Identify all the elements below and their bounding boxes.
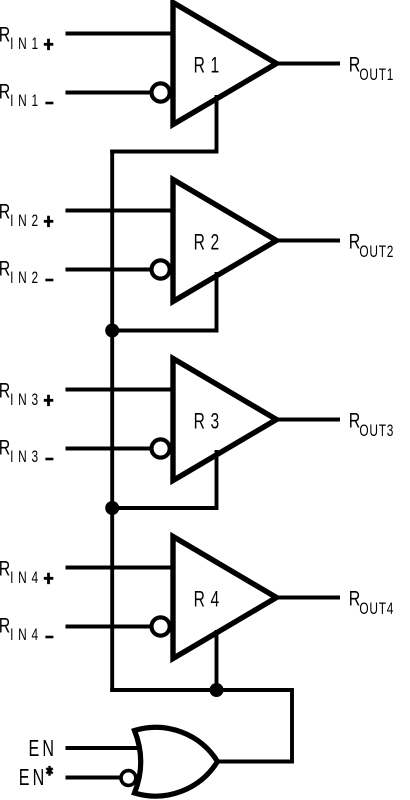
junction node R4 enable bbox=[210, 683, 224, 697]
label ROUT4 bbox=[349, 587, 394, 619]
svg-text:EN: EN bbox=[29, 737, 55, 762]
wire RIN3+ input bbox=[66, 388, 174, 392]
inverting bubble R2 bbox=[152, 260, 170, 278]
svg-text:R: R bbox=[0, 557, 10, 581]
wire RIN4+ input bbox=[66, 566, 174, 570]
inverting bubble EN* bbox=[121, 771, 136, 786]
svg-text:R: R bbox=[349, 230, 360, 254]
wire R2 enable stub + jog to rail bbox=[110, 272, 216, 331]
svg-text:OUT2: OUT2 bbox=[359, 243, 393, 262]
svg-text:R 3: R 3 bbox=[194, 410, 220, 434]
wire EN* input bbox=[66, 776, 123, 780]
wire ROUT2 output bbox=[276, 239, 340, 243]
svg-text:R: R bbox=[0, 200, 10, 224]
svg-text:OUT3: OUT3 bbox=[359, 422, 393, 441]
wire R3 enable stub + jog to rail bbox=[110, 450, 216, 508]
label RIN2- bbox=[0, 257, 53, 287]
svg-text:R: R bbox=[349, 409, 360, 433]
svg-text:R: R bbox=[0, 80, 10, 104]
receiver R4 triangle bbox=[173, 537, 277, 659]
OR gate U1 bbox=[135, 727, 218, 796]
label RIN1+ bbox=[0, 23, 53, 53]
receiver R2 triangle bbox=[173, 180, 277, 302]
label RIN1- bbox=[0, 80, 53, 110]
wire ROUT1 output bbox=[276, 62, 340, 66]
receiver R3 triangle bbox=[173, 359, 277, 481]
wire RIN2+ input bbox=[66, 209, 174, 213]
label RIN2+ bbox=[0, 200, 53, 230]
svg-text:OUT4: OUT4 bbox=[359, 600, 393, 619]
svg-text:IN2: IN2 bbox=[10, 269, 38, 288]
label RIN4+ bbox=[0, 557, 53, 587]
svg-text:R 4: R 4 bbox=[194, 588, 220, 612]
junction node R3 enable bbox=[105, 501, 119, 515]
wire ROUT4 output bbox=[276, 596, 340, 600]
receiver R1 triangle bbox=[173, 3, 277, 125]
wire enable bus bottom run to gate output bbox=[110, 690, 292, 762]
svg-text:R 1: R 1 bbox=[194, 54, 220, 78]
label ROUT3 bbox=[349, 409, 394, 441]
svg-text:IN2: IN2 bbox=[10, 212, 38, 231]
wire R4 enable stub bbox=[215, 630, 219, 692]
svg-text:IN4: IN4 bbox=[10, 626, 38, 645]
svg-text:IN1: IN1 bbox=[10, 35, 38, 54]
svg-text:R: R bbox=[0, 436, 10, 460]
svg-text:IN3: IN3 bbox=[10, 448, 38, 467]
label ROUT1 bbox=[349, 53, 394, 85]
svg-text:IN4: IN4 bbox=[10, 569, 38, 588]
wire enable rail vertical bbox=[110, 150, 114, 693]
wire RIN1- input bbox=[66, 91, 151, 95]
svg-text:R: R bbox=[349, 53, 360, 77]
svg-text:R: R bbox=[0, 379, 10, 403]
svg-text:R: R bbox=[349, 587, 360, 611]
wire RIN1+ input bbox=[66, 32, 174, 36]
wire ROUT3 output bbox=[276, 418, 340, 422]
wire EN input bbox=[66, 746, 146, 750]
inverting bubble R4 bbox=[152, 617, 170, 635]
svg-text:IN3: IN3 bbox=[10, 391, 38, 410]
label EN* bbox=[19, 766, 53, 791]
label RIN3+ bbox=[0, 379, 53, 409]
svg-text:R: R bbox=[0, 23, 10, 47]
wire RIN3- input bbox=[66, 447, 151, 451]
svg-text:R: R bbox=[0, 614, 10, 638]
svg-text:R: R bbox=[0, 257, 10, 281]
inverting bubble R1 bbox=[152, 83, 170, 101]
svg-text:OUT1: OUT1 bbox=[359, 66, 393, 85]
junction node R2 enable bbox=[105, 324, 119, 338]
wire RIN4- input bbox=[66, 625, 151, 629]
label RIN4- bbox=[0, 614, 53, 644]
svg-text:IN1: IN1 bbox=[10, 92, 38, 111]
svg-text:R 2: R 2 bbox=[194, 231, 220, 255]
label ROUT2 bbox=[349, 230, 394, 262]
inverting bubble R3 bbox=[152, 439, 170, 457]
label RIN3- bbox=[0, 436, 53, 466]
svg-text:EN: EN bbox=[19, 766, 45, 791]
wire R1 enable stub + jog to rail bbox=[110, 95, 216, 152]
wire RIN2- input bbox=[66, 268, 151, 272]
